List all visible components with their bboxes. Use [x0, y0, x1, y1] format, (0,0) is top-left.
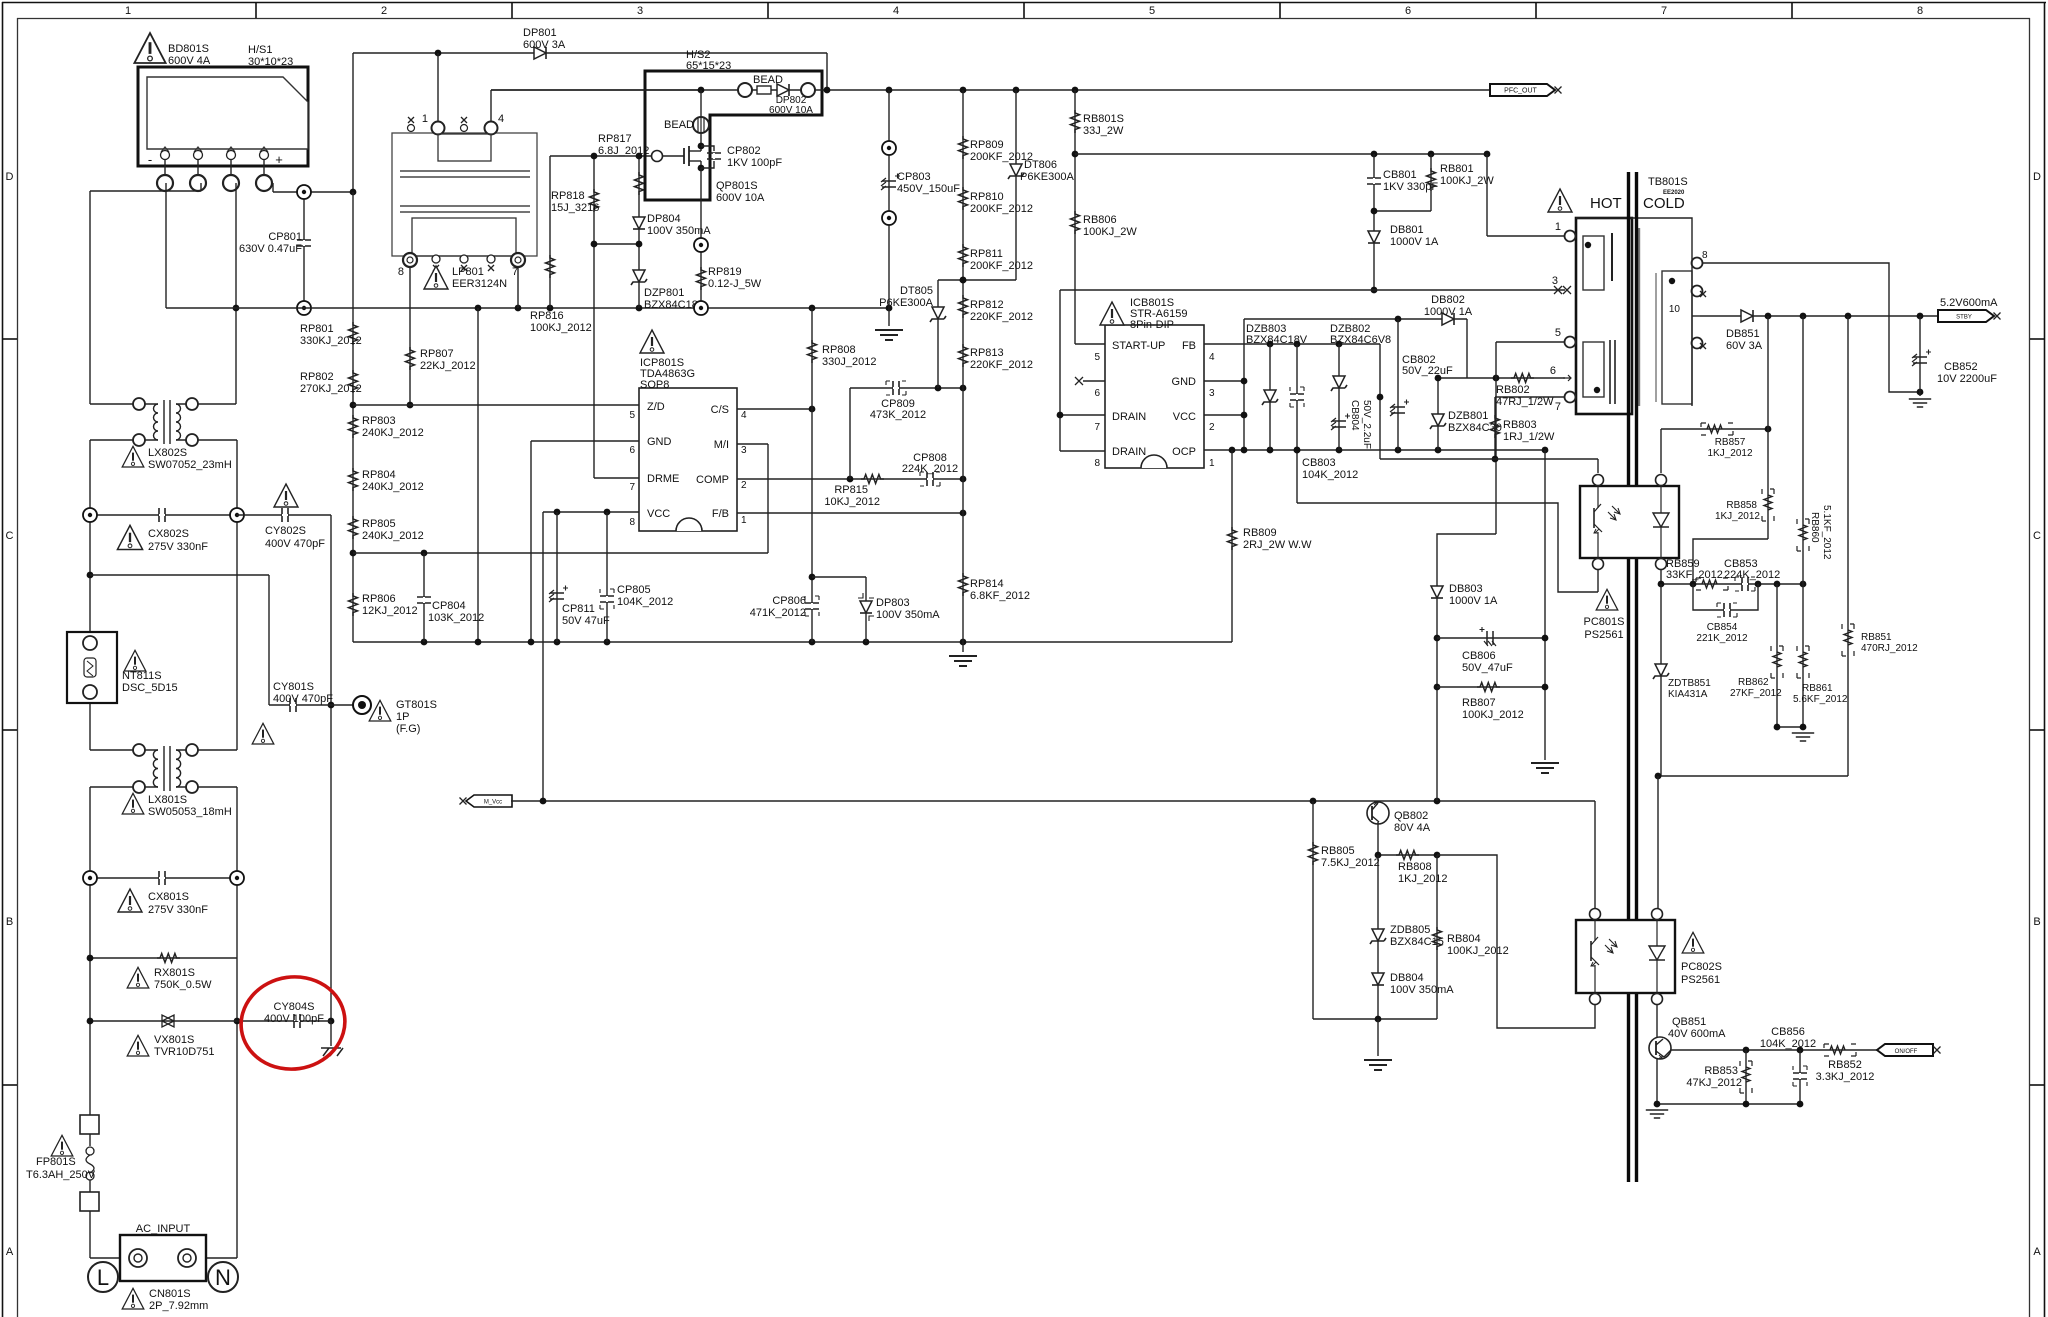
svg-text:QP801S: QP801S: [716, 180, 758, 192]
svg-text:47KJ_2012: 47KJ_2012: [1686, 1077, 1742, 1089]
svg-text:1KV 100pF: 1KV 100pF: [727, 157, 782, 169]
connector CN801S AC input: [88, 1223, 238, 1312]
wire VCC net: [543, 509, 639, 801]
diode DB801: [1368, 208, 1439, 294]
svg-text:450V_150uF: 450V_150uF: [897, 183, 960, 195]
svg-text:QB802: QB802: [1394, 810, 1428, 822]
svg-text:GND: GND: [647, 436, 672, 448]
resistor RP805: [349, 516, 424, 542]
svg-text:50V_22uF: 50V_22uF: [1402, 365, 1453, 377]
svg-text:1RJ_1/2W: 1RJ_1/2W: [1503, 431, 1555, 443]
svg-text:START-UP: START-UP: [1112, 340, 1165, 352]
wire LP801 pin1: [437, 53, 439, 121]
resistor RB803: [1491, 397, 1565, 462]
svg-text:OCP: OCP: [1172, 446, 1196, 458]
svg-text:1: 1: [1555, 221, 1561, 233]
svg-text:DB851: DB851: [1726, 328, 1760, 340]
svg-text:LX802S: LX802S: [148, 447, 187, 459]
wire QB802 ground: [1313, 1016, 1437, 1070]
svg-text:600V 10A: 600V 10A: [769, 105, 813, 116]
svg-text:200KF_2012: 200KF_2012: [970, 151, 1033, 163]
wire regulator loop: [1655, 773, 1848, 908]
svg-text:RB860: RB860: [1809, 512, 1820, 543]
svg-text:80V 4A: 80V 4A: [1394, 822, 1431, 834]
svg-text:104K_2012: 104K_2012: [1760, 1038, 1816, 1050]
diode DP802: [738, 83, 815, 116]
resistor RP811: [959, 244, 1034, 272]
svg-text:C: C: [6, 530, 14, 542]
resistor RX801S: [87, 954, 237, 992]
svg-text:RB857: RB857: [1715, 437, 1746, 448]
svg-text:RB809: RB809: [1243, 527, 1277, 539]
svg-text:AC_INPUT: AC_INPUT: [136, 1223, 191, 1235]
svg-text:240KJ_2012: 240KJ_2012: [362, 481, 424, 493]
svg-text:330J_2012: 330J_2012: [822, 356, 876, 368]
diode DP804: [633, 213, 711, 237]
svg-text:PS2561: PS2561: [1681, 974, 1720, 986]
svg-text:6: 6: [1094, 388, 1100, 399]
svg-text:6: 6: [629, 445, 635, 456]
svg-text:P6KE300A: P6KE300A: [879, 297, 933, 309]
svg-text:COMP: COMP: [696, 474, 729, 486]
svg-text:30*10*23: 30*10*23: [248, 56, 293, 68]
diode DB851: [1700, 310, 1938, 352]
transistor QB802: [1367, 801, 1431, 855]
resistor RB802: [1496, 374, 1554, 409]
wire TB pin1 feed: [1487, 154, 1564, 236]
wire DP801 top line: [353, 50, 827, 192]
svg-text:CB854: CB854: [1707, 622, 1738, 633]
surge absorber NT811S: [67, 632, 178, 703]
resistor RB804: [1433, 855, 1509, 1019]
svg-text:CB801: CB801: [1383, 169, 1417, 181]
heatsink H/S2 outline: [645, 49, 822, 200]
diode DB803: [1431, 534, 1498, 801]
svg-text:DP801: DP801: [523, 27, 557, 39]
svg-text:2: 2: [381, 5, 387, 17]
resistor RB861: [1774, 584, 1848, 741]
svg-text:27KF_2012: 27KF_2012: [1730, 688, 1782, 699]
svg-text:EER3124N: EER3124N: [452, 278, 507, 290]
svg-text:471K_2012: 471K_2012: [750, 607, 806, 619]
svg-text:103K_2012: 103K_2012: [428, 612, 484, 624]
svg-text:400V 470pF: 400V 470pF: [265, 538, 325, 550]
svg-text:65*15*23: 65*15*23: [686, 60, 731, 72]
wire gate drive net: [550, 153, 652, 478]
red highlight circle annotation: [235, 970, 351, 1076]
svg-text:BZX84C18: BZX84C18: [644, 299, 698, 311]
optocoupler PC801S: [1580, 475, 1679, 642]
svg-text:CN801S: CN801S: [149, 1288, 191, 1300]
capacitor CB803: [1290, 344, 1358, 503]
svg-text:LX801S: LX801S: [148, 794, 187, 806]
capacitor CB852: [1909, 316, 1997, 407]
resistor RB809: [1228, 450, 1313, 642]
svg-text:1000V 1A: 1000V 1A: [1424, 306, 1473, 318]
svg-text:15J_3216: 15J_3216: [551, 202, 599, 214]
svg-text:224K_2012: 224K_2012: [1724, 569, 1780, 581]
svg-text:RP805: RP805: [362, 518, 396, 530]
svg-text:RB802: RB802: [1496, 384, 1530, 396]
svg-text:1000V 1A: 1000V 1A: [1449, 595, 1498, 607]
svg-text:1000V 1A: 1000V 1A: [1390, 236, 1439, 248]
svg-text:22KJ_2012: 22KJ_2012: [420, 360, 476, 372]
wire Z/D bus: [353, 404, 639, 406]
capacitor CP802: [701, 145, 782, 169]
svg-text:3: 3: [1552, 275, 1558, 287]
diode DP801: [523, 27, 566, 59]
svg-text:40V 600mA: 40V 600mA: [1668, 1028, 1726, 1040]
svg-text:5.1KF_2012: 5.1KF_2012: [1821, 505, 1832, 560]
svg-text:100KJ_2012: 100KJ_2012: [1462, 709, 1524, 721]
wire PFC divider rail: [350, 192, 357, 642]
svg-text:BZX84C6V8: BZX84C6V8: [1330, 334, 1391, 346]
svg-text:CX802S: CX802S: [148, 528, 189, 540]
svg-text:DP803: DP803: [876, 597, 910, 609]
svg-text:7: 7: [512, 266, 518, 278]
resistor RP813: [959, 344, 1034, 371]
resistor RB859: [1666, 558, 1728, 590]
svg-text:B: B: [2033, 916, 2040, 928]
svg-text:CY802S: CY802S: [265, 525, 306, 537]
svg-text:473K_2012: 473K_2012: [870, 409, 926, 421]
svg-text:400V 470pF: 400V 470pF: [273, 693, 333, 705]
svg-text:C: C: [2033, 530, 2041, 542]
svg-text:CP805: CP805: [617, 584, 651, 596]
wire bridge pin connections: [90, 183, 356, 404]
svg-text:33J_2W: 33J_2W: [1083, 125, 1124, 137]
svg-text:6.8J_2012: 6.8J_2012: [598, 145, 649, 157]
ic ICP801S TDA4863G: [629, 330, 747, 531]
capacitor CP804: [417, 553, 484, 642]
wire GND VCC stubs: [1204, 319, 1247, 450]
wire opto feed bus: [1380, 459, 1598, 473]
svg-text:CB804: CB804: [1349, 400, 1360, 431]
svg-text:50V_2.2uF: 50V_2.2uF: [1361, 400, 1372, 449]
svg-text:LP801: LP801: [452, 266, 484, 278]
resistor RP810: [959, 187, 1034, 215]
svg-text:DB801: DB801: [1390, 224, 1424, 236]
svg-text:BD801S: BD801S: [168, 43, 209, 55]
wire PFC switch node: [491, 87, 1490, 94]
svg-text:8: 8: [629, 517, 635, 528]
net flag PFC_OUT: [1490, 84, 1562, 96]
common mode choke LX801S: [90, 744, 237, 818]
resistor RB853: [1686, 1050, 1752, 1104]
svg-text:600V 3A: 600V 3A: [523, 39, 566, 51]
svg-text:7: 7: [629, 482, 635, 493]
svg-text:3: 3: [741, 445, 747, 456]
svg-text:VX801S: VX801S: [154, 1034, 194, 1046]
transformer TB801S primary: [1548, 176, 1688, 414]
capacitor CB802: [1390, 319, 1453, 450]
resistor RB860: [1797, 316, 1832, 584]
svg-text:5: 5: [1149, 5, 1155, 17]
capacitor CB856: [1760, 1026, 1816, 1104]
svg-text:50V_47uF: 50V_47uF: [1462, 662, 1513, 674]
svg-text:SOP8: SOP8: [640, 379, 669, 391]
svg-text:SW07052_23mH: SW07052_23mH: [148, 459, 232, 471]
svg-text:CP803: CP803: [897, 171, 931, 183]
svg-text:KIA431A: KIA431A: [1668, 689, 1708, 700]
svg-text:SW05053_18mH: SW05053_18mH: [148, 806, 232, 818]
resistor RB805: [1309, 801, 1380, 1019]
svg-text:RP808: RP808: [822, 344, 856, 356]
svg-text:RP815: RP815: [834, 484, 868, 496]
svg-text:RB805: RB805: [1321, 845, 1355, 857]
svg-text:DRAIN: DRAIN: [1112, 411, 1146, 423]
svg-text:DZB801: DZB801: [1448, 410, 1488, 422]
svg-text:VCC: VCC: [1173, 411, 1196, 423]
wire primary bus: [166, 266, 892, 642]
svg-text:RB862: RB862: [1738, 677, 1769, 688]
svg-text:6: 6: [1550, 365, 1556, 377]
svg-text:10: 10: [1669, 304, 1681, 315]
wire F/B net: [737, 510, 966, 517]
svg-text:330KJ_2012: 330KJ_2012: [300, 335, 362, 347]
svg-text:RB808: RB808: [1398, 861, 1432, 873]
svg-text:RP810: RP810: [970, 191, 1004, 203]
capacitor CY802S: [237, 484, 331, 550]
resistor RP808: [808, 308, 877, 642]
svg-text:5: 5: [629, 410, 635, 421]
resistor RB858: [1693, 316, 1774, 584]
svg-text:A: A: [2033, 1246, 2041, 1258]
node pin6 unconnected: [1075, 377, 1105, 385]
svg-text:PC802S: PC802S: [1681, 961, 1722, 973]
svg-text:8: 8: [1094, 458, 1100, 469]
svg-text:RB853: RB853: [1704, 1065, 1738, 1077]
capacitor CP806: [750, 595, 819, 619]
svg-text:470RJ_2012: 470RJ_2012: [1861, 643, 1918, 654]
svg-text:1KJ_2012: 1KJ_2012: [1398, 873, 1448, 885]
svg-text:CP804: CP804: [432, 600, 466, 612]
svg-text:H/S1: H/S1: [248, 44, 272, 56]
diode DB802: [1424, 294, 1473, 325]
wire FB net: [1204, 341, 1383, 459]
svg-text:8: 8: [1917, 5, 1923, 17]
svg-text:221K_2012: 221K_2012: [1696, 633, 1748, 644]
suppressor DT806: [1008, 90, 1074, 280]
resistor RP804: [349, 468, 424, 493]
svg-text:RP814: RP814: [970, 578, 1004, 590]
svg-text:0.12-J_5W: 0.12-J_5W: [708, 278, 762, 290]
diode DB804: [1372, 972, 1454, 996]
capacitor CP805: [600, 512, 673, 642]
svg-text:M/I: M/I: [714, 439, 729, 451]
svg-text:224K_2012: 224K_2012: [902, 463, 958, 475]
resistor RP819: [694, 168, 762, 315]
svg-text:RP806: RP806: [362, 593, 396, 605]
svg-text:1KJ_2012: 1KJ_2012: [1707, 448, 1752, 459]
zener DZB803: [1246, 323, 1308, 450]
svg-text:RP802: RP802: [300, 371, 334, 383]
svg-text:100KJ_2W: 100KJ_2W: [1083, 226, 1137, 238]
capacitor CX802S: [83, 508, 244, 553]
svg-text:STBY: STBY: [1956, 315, 1972, 321]
svg-text:DZP801: DZP801: [644, 287, 684, 299]
svg-text:FB: FB: [1182, 340, 1196, 352]
zener ZDB805: [1370, 855, 1444, 1019]
svg-text:PS2561: PS2561: [1584, 629, 1623, 641]
wire mid bus 553: [353, 550, 768, 557]
svg-text:RP809: RP809: [970, 139, 1004, 151]
svg-text:CP806: CP806: [772, 595, 806, 607]
svg-text:100V 350mA: 100V 350mA: [876, 609, 940, 621]
wire LP801 pin4 to MOSFET drain: [491, 90, 701, 121]
svg-text:PFC_OUT: PFC_OUT: [1504, 88, 1537, 95]
capacitor CB801: [1367, 154, 1438, 211]
svg-text:RP818: RP818: [551, 190, 585, 202]
mosfet QP801S: [652, 143, 765, 204]
svg-text:1: 1: [422, 113, 428, 125]
svg-text:275V 330nF: 275V 330nF: [148, 904, 208, 916]
svg-text:B: B: [6, 916, 13, 928]
svg-text:RP803: RP803: [362, 415, 396, 427]
resistor chain RP809-RP813 RP814: [949, 90, 977, 666]
wire right rail N: [195, 440, 240, 1258]
wire CB806 ground leg: [1531, 450, 1559, 773]
svg-text:D: D: [2033, 171, 2041, 183]
resistor RP801: [300, 322, 362, 347]
svg-text:RX801S: RX801S: [154, 967, 195, 979]
isolation barrier HOT COLD: [1629, 172, 1637, 1182]
svg-text:600V 4A: 600V 4A: [168, 55, 211, 67]
net flag M_Vcc: [460, 795, 513, 807]
svg-text:7: 7: [1094, 422, 1100, 433]
svg-text:DRME: DRME: [647, 473, 679, 485]
resistor RP817: [598, 133, 649, 195]
svg-text:DB804: DB804: [1390, 972, 1424, 984]
wire GND pin net: [531, 441, 639, 642]
zener DZP801: [631, 270, 698, 311]
net flag ON-OFF: [1877, 1044, 1941, 1056]
svg-text:RP813: RP813: [970, 347, 1004, 359]
resistor RB857: [1661, 423, 1771, 473]
svg-text:COLD: COLD: [1643, 195, 1685, 212]
transformer TB801S secondary: [1639, 228, 1708, 406]
wire M_Vcc to PC802S: [1594, 801, 1596, 908]
svg-text:8: 8: [1702, 250, 1708, 261]
svg-text:-: -: [148, 152, 152, 167]
resistor RP806: [349, 593, 418, 617]
svg-text:RB807: RB807: [1462, 697, 1496, 709]
svg-text:ZDTB851: ZDTB851: [1668, 678, 1711, 689]
svg-text:275V 330nF: 275V 330nF: [148, 541, 208, 553]
svg-text:220KF_2012: 220KF_2012: [970, 359, 1033, 371]
shunt regulator ZDTB851: [1653, 584, 1711, 776]
svg-text:1: 1: [1209, 458, 1215, 469]
svg-text:10V 2200uF: 10V 2200uF: [1937, 373, 1997, 385]
wire drain to TB pin3: [1057, 286, 1565, 451]
svg-text:CB803: CB803: [1302, 457, 1336, 469]
svg-text:1: 1: [741, 515, 747, 526]
svg-text:104K_2012: 104K_2012: [617, 596, 673, 608]
capacitor CX801S: [83, 871, 244, 916]
svg-text:200KF_2012: 200KF_2012: [970, 203, 1033, 215]
capacitor CB854: [1693, 584, 1758, 644]
svg-text:10KJ_2012: 10KJ_2012: [824, 496, 880, 508]
wire M/I net: [737, 444, 768, 553]
capacitor CY801S: [252, 681, 333, 744]
resistor RP815: [824, 475, 884, 509]
svg-text:TVR10D751: TVR10D751: [154, 1046, 215, 1058]
svg-text:RP819: RP819: [708, 266, 742, 278]
svg-text:RP816: RP816: [530, 310, 564, 322]
svg-text:RB861: RB861: [1802, 683, 1833, 694]
svg-text:F/B: F/B: [712, 508, 729, 520]
svg-text:3.3KJ_2012: 3.3KJ_2012: [1816, 1071, 1875, 1083]
svg-text:2: 2: [741, 480, 747, 491]
wire aux top line: [1244, 316, 1467, 378]
svg-text:2RJ_2W W.W: 2RJ_2W W.W: [1243, 539, 1312, 551]
svg-text:M_Vcc: M_Vcc: [484, 800, 502, 806]
svg-text:A: A: [6, 1246, 14, 1258]
wire RB808 to opto PC802S: [1437, 855, 1595, 1028]
svg-text:CP811: CP811: [562, 603, 595, 615]
svg-text:DB802: DB802: [1431, 294, 1465, 306]
wire LP801 pin8 down: [407, 267, 414, 408]
resistor RP809: [959, 136, 1034, 163]
svg-text:100KJ_2012: 100KJ_2012: [530, 322, 592, 334]
svg-text:CB806: CB806: [1462, 650, 1496, 662]
capacitor CB806: [1437, 627, 1545, 674]
wire pin8 loop: [1702, 263, 1923, 395]
capacitor CY804S: [237, 1001, 331, 1028]
svg-text:DP804: DP804: [647, 213, 681, 225]
resistor RP802: [300, 370, 362, 395]
svg-text:PC801S: PC801S: [1584, 616, 1625, 628]
wire OCP bus: [1204, 447, 1548, 454]
svg-text:N: N: [215, 1265, 231, 1290]
capacitor CB853: [1724, 558, 1780, 591]
svg-text:RB801S: RB801S: [1083, 113, 1124, 125]
svg-text:750K_0.5W: 750K_0.5W: [154, 979, 212, 991]
terminal GT801S: [353, 696, 437, 735]
svg-text:CP802: CP802: [727, 145, 761, 157]
common mode choke LX802S: [90, 398, 237, 471]
svg-text:5.6KF_2012: 5.6KF_2012: [1793, 694, 1848, 705]
svg-text:240KJ_2012: 240KJ_2012: [362, 427, 424, 439]
svg-text:RB801: RB801: [1440, 163, 1474, 175]
svg-text:3: 3: [637, 5, 643, 17]
resistor RP814: [959, 573, 1030, 602]
resistor RB862: [1730, 584, 1783, 727]
capacitor CP803: [875, 90, 960, 340]
diode DP803: [812, 577, 940, 642]
svg-text:CP801: CP801: [268, 231, 302, 243]
svg-text:400V 100pF: 400V 100pF: [264, 1013, 324, 1025]
svg-text:4: 4: [1209, 352, 1215, 363]
svg-text:60V 3A: 60V 3A: [1726, 340, 1763, 352]
wire COMP net: [737, 476, 966, 483]
svg-text:7: 7: [1661, 5, 1667, 17]
svg-text:5.2V600mA: 5.2V600mA: [1940, 297, 1998, 309]
earth symbol below CY804S: [321, 1021, 343, 1056]
svg-text:VCC: VCC: [647, 508, 670, 520]
resistor RP812: [959, 295, 1034, 323]
svg-text:RP807: RP807: [420, 348, 454, 360]
svg-text:RP804: RP804: [362, 469, 396, 481]
wire ground bus 642: [353, 639, 1232, 646]
resistor RB801S: [1071, 90, 1124, 344]
svg-text:L: L: [97, 1265, 109, 1290]
svg-text:CY801S: CY801S: [273, 681, 314, 693]
svg-text:4: 4: [893, 5, 899, 17]
svg-text:DT805: DT805: [900, 285, 933, 297]
resistor RB806: [1071, 211, 1138, 238]
svg-text:(F.G): (F.G): [396, 723, 420, 735]
